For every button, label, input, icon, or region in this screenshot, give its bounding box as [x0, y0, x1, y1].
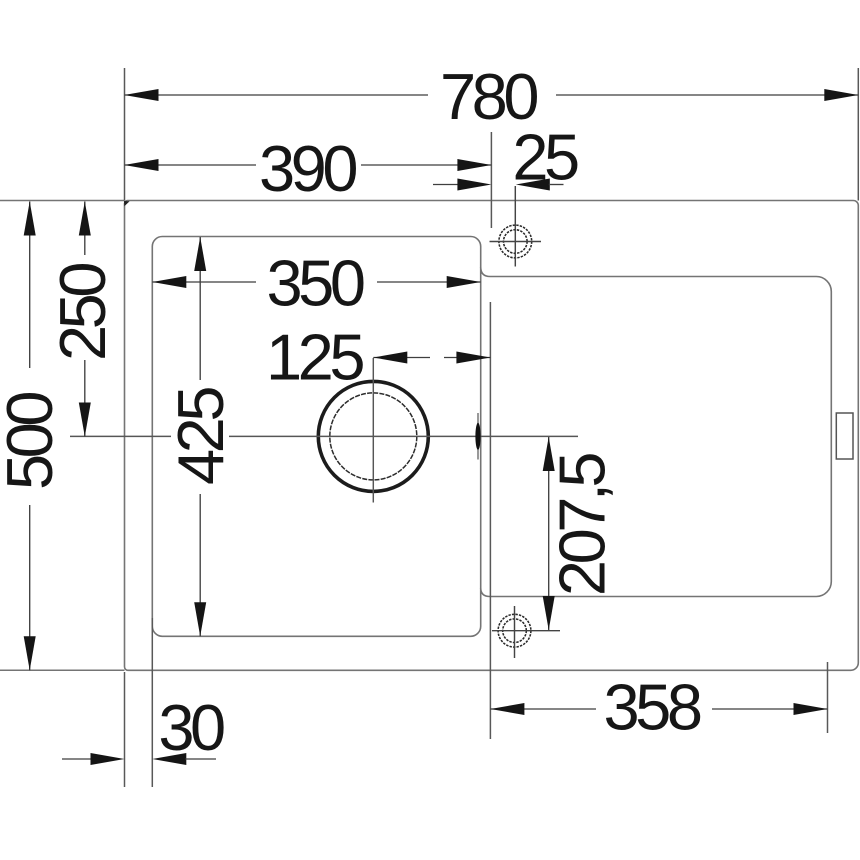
- svg-text:25: 25: [512, 120, 578, 193]
- extension line mid vertical (390 dim): [490, 132, 492, 228]
- centerline tick mark on bowl right edge: [475, 413, 480, 460]
- dimension 390: [125, 132, 492, 205]
- drain vertical centerline: [372, 358, 374, 503]
- extension line drainer left edge: [489, 302, 491, 739]
- extension line drainer right (358 dim): [827, 662, 829, 733]
- svg-text:125: 125: [266, 320, 363, 393]
- extension line bowl left below: [151, 618, 153, 787]
- dimension 30: [62, 691, 224, 765]
- dimension 250 (vertical): [46, 202, 119, 437]
- svg-text:350: 350: [267, 247, 364, 320]
- dimension 500 (vertical): [0, 202, 66, 671]
- dimension 350: [152, 247, 480, 320]
- dimension 125: [266, 320, 490, 393]
- svg-text:425: 425: [164, 388, 237, 485]
- extension line sink left below: [124, 672, 126, 787]
- top tap hole: [490, 186, 542, 267]
- extension line bottom left horizontal: [0, 669, 125, 671]
- svg-text:30: 30: [158, 691, 224, 764]
- dimension 425 (vertical): [164, 237, 237, 636]
- dimension 25: [433, 120, 578, 193]
- svg-text:390: 390: [259, 132, 356, 205]
- corner mark sink top-left: [124, 201, 130, 206]
- svg-text:250: 250: [46, 264, 119, 361]
- drain inner circle: [330, 393, 417, 480]
- sink horizontal centerline: [70, 435, 578, 437]
- svg-text:358: 358: [604, 670, 701, 743]
- extension line right vertical above sink: [857, 68, 859, 201]
- svg-text:500: 500: [0, 393, 66, 490]
- extension line left vertical above sink: [124, 68, 126, 201]
- overflow rectangle on right rim: [836, 413, 853, 459]
- bottom tap hole: [492, 606, 560, 658]
- drainer outline: [481, 267, 832, 597]
- bowl outline: [152, 237, 480, 637]
- dimension 780: [125, 60, 859, 133]
- extension line top left horizontal: [0, 200, 125, 202]
- sink outer outline: [125, 201, 859, 671]
- dimension 207,5 (vertical): [543, 437, 619, 630]
- dimension 358: [490, 670, 827, 743]
- svg-text:207,5: 207,5: [545, 454, 618, 597]
- drain outer circle: [318, 381, 428, 491]
